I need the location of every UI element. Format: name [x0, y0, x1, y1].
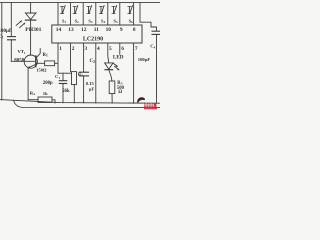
- watermark logo swoosh: [137, 97, 145, 103]
- svg-text:µF: µF: [89, 87, 95, 92]
- svg-text:C3: C3: [0, 35, 3, 40]
- wire C3 bottom lead: [10, 40, 12, 61]
- capacitor C4: [152, 30, 160, 32]
- svg-text:12: 12: [81, 27, 87, 33]
- transistor VT1 emitter: [29, 64, 36, 67]
- svg-text:R2: R2: [78, 72, 83, 78]
- LED arrow 2: [115, 66, 119, 69]
- svg-text:14: 14: [56, 27, 62, 33]
- resistor R3: [109, 81, 115, 94]
- wire pin3 bottom lead: [83, 43, 85, 72]
- svg-text:S1: S1: [62, 18, 66, 24]
- wire pin12 top lead: [82, 3, 84, 25]
- wire pin9 top lead: [119, 3, 121, 25]
- wire top rail: [1, 2, 161, 4]
- wire pin14 top lead: [57, 3, 59, 25]
- svg-text:10: 10: [106, 27, 112, 33]
- svg-text:100µF: 100µF: [138, 57, 151, 62]
- svg-text:PH301: PH301: [25, 27, 41, 33]
- resistor R1: [45, 61, 55, 66]
- switch S3: [88, 7, 90, 14]
- svg-text:VT1: VT1: [18, 49, 26, 55]
- border frame line: [14, 100, 161, 107]
- transistor VT1 collector: [36, 49, 40, 59]
- resistor R4: [38, 97, 52, 103]
- svg-text:C1: C1: [55, 74, 60, 80]
- resistor R2: [72, 72, 77, 85]
- wire junction pins 1-2: [58, 72, 72, 74]
- capacitor C2: [80, 71, 89, 73]
- svg-text:5: 5: [109, 46, 112, 52]
- svg-text:S2: S2: [75, 18, 79, 24]
- wire to R4: [28, 99, 38, 101]
- wire C4 branch from rail: [140, 3, 157, 31]
- switch S4: [100, 7, 102, 14]
- wire pin1 bottom lead: [57, 43, 59, 73]
- svg-text:100µF: 100µF: [0, 29, 12, 34]
- svg-text:6: 6: [121, 46, 124, 52]
- LED arrow 1: [113, 63, 117, 66]
- wire C3 top lead: [10, 3, 12, 37]
- wire pin11 top lead: [95, 3, 97, 25]
- svg-text:9: 9: [120, 27, 123, 33]
- watermark character detail lines: [144, 103, 153, 107]
- wire LED to R3: [109, 70, 112, 81]
- wire C1 bottom lead: [62, 84, 64, 103]
- svg-text:150Ω: 150Ω: [36, 68, 47, 73]
- transistor VT1 circle: [24, 55, 37, 68]
- svg-text:1k: 1k: [43, 91, 48, 96]
- capacitor C1: [59, 80, 67, 82]
- svg-text:R1: R1: [43, 53, 48, 58]
- svg-text:C2: C2: [90, 59, 96, 64]
- wire pin5 bottom lead: [108, 43, 109, 63]
- wire C4 bottom lead: [156, 35, 158, 104]
- LED symbol: [105, 63, 113, 69]
- svg-text:3: 3: [84, 46, 87, 52]
- capacitor C3: [8, 36, 16, 38]
- wire photodiode anode lead: [30, 3, 32, 14]
- svg-text:S6: S6: [129, 18, 133, 24]
- svg-text:0.15: 0.15: [86, 81, 95, 86]
- svg-text:2: 2: [72, 46, 75, 52]
- svg-text:11: 11: [94, 27, 99, 33]
- wire pin6 stub: [119, 43, 121, 54]
- wire pin7 bottom lead: [133, 43, 135, 103]
- switch S6: [128, 7, 130, 14]
- svg-text:8: 8: [133, 27, 136, 33]
- wire C1 top lead: [62, 73, 64, 80]
- light arrow 2: [20, 23, 25, 27]
- transistor VT1 bar: [35, 56, 37, 67]
- svg-text:S3: S3: [88, 18, 92, 24]
- IC LC2190 box: [52, 25, 142, 43]
- wire pin10 top lead: [107, 3, 109, 25]
- svg-text:8050: 8050: [14, 59, 24, 64]
- wire photodiode cathode lead: [30, 20, 32, 55]
- svg-text:S5: S5: [114, 18, 118, 24]
- svg-text:C4: C4: [150, 44, 155, 50]
- svg-text:Ω: Ω: [118, 90, 122, 95]
- svg-text:4: 4: [97, 46, 100, 52]
- wire pin13 top lead: [70, 3, 72, 25]
- wire left rail: [1, 3, 3, 100]
- svg-text:56k: 56k: [62, 89, 70, 94]
- photodiode PH301: [25, 13, 36, 19]
- svg-text:R4: R4: [30, 90, 35, 96]
- switch S1: [61, 7, 63, 14]
- svg-text:LC2190: LC2190: [83, 37, 103, 43]
- wire ground rail: [0, 100, 160, 104]
- wire R2 bottom lead: [73, 85, 75, 103]
- svg-text:200p: 200p: [43, 81, 53, 86]
- wire emitter down: [27, 68, 29, 100]
- wire R4 right lead: [52, 100, 55, 103]
- switch S2: [74, 7, 76, 14]
- svg-text:S4: S4: [101, 18, 105, 24]
- wire R3 bottom lead: [111, 94, 113, 104]
- wire R1 right lead: [55, 62, 58, 64]
- wire C2 bottom lead: [83, 76, 85, 103]
- svg-text:LED: LED: [113, 55, 124, 61]
- wire base line: [11, 60, 36, 62]
- wire pin4 bottom lead: [95, 43, 97, 103]
- wire pin2 bottom lead: [70, 43, 72, 72]
- wire pin8 top lead: [133, 3, 135, 25]
- svg-text:7: 7: [135, 46, 138, 52]
- svg-text:1: 1: [59, 46, 62, 52]
- switch S5: [113, 7, 115, 14]
- watermark red characters: [144, 103, 157, 109]
- wire R1 left lead: [36, 62, 44, 64]
- svg-text:13: 13: [68, 27, 74, 33]
- light arrow 1: [16, 21, 21, 25]
